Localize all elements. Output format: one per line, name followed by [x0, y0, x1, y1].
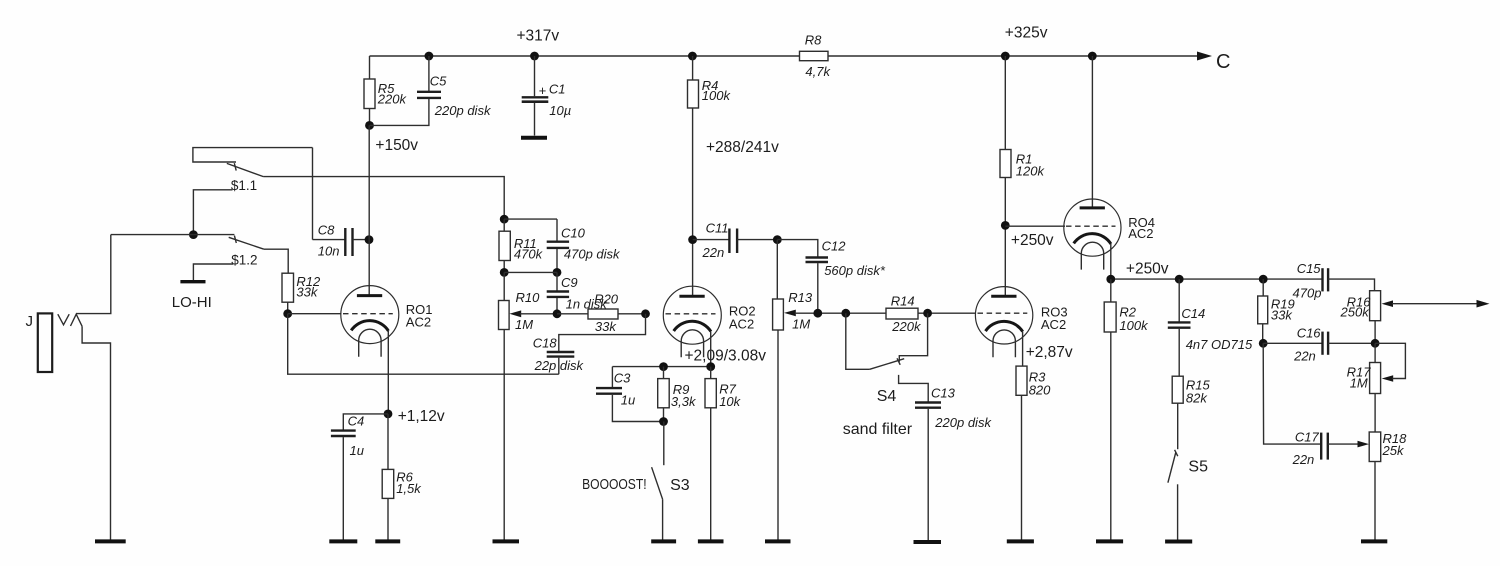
wire: S3 bottom lead	[662, 499, 664, 541]
svg-text:S5: S5	[1188, 458, 1208, 475]
junction R9 top	[659, 362, 668, 371]
wire: C14 to R15	[1178, 329, 1180, 376]
svg-text:220k: 220k	[377, 91, 408, 106]
svg-text:S4: S4	[877, 388, 897, 405]
ground under S3	[651, 539, 676, 543]
svg-text:470k: 470k	[514, 247, 544, 262]
potentiometer R13	[773, 299, 784, 330]
R18 wiper arrow	[1358, 441, 1370, 448]
svg-text:AC2: AC2	[1128, 226, 1153, 241]
svg-text:1u: 1u	[350, 443, 364, 458]
wire: C10 top lead	[556, 219, 558, 241]
RO3 cathode arc	[986, 321, 1023, 331]
wire: RO4 cathode lead	[1110, 244, 1112, 279]
R13 wiper arrow	[784, 310, 796, 317]
svg-text:33k: 33k	[296, 284, 318, 299]
svg-text:+2,09/3.08v: +2,09/3.08v	[685, 347, 767, 364]
svg-text:C: C	[1216, 51, 1230, 73]
arrow to node C	[1197, 52, 1212, 61]
svg-text:R10: R10	[516, 290, 541, 305]
resistor R2	[1104, 302, 1116, 332]
wire: C3 bottom to R9 bottom	[612, 395, 663, 422]
wire: R7 leads to ground	[710, 367, 712, 379]
resistor R12	[282, 273, 294, 302]
switch S5 blade	[1168, 452, 1176, 483]
capacitor C12	[806, 256, 829, 258]
resistor R7	[705, 379, 716, 408]
wire: cathode row C3/R9/R7	[612, 366, 710, 368]
svg-text:82k: 82k	[1186, 391, 1208, 406]
RO4 cathode arc	[1074, 234, 1111, 244]
svg-text:1M: 1M	[792, 317, 810, 332]
wire: pole node to jack	[111, 234, 194, 236]
ground under jack	[95, 539, 126, 543]
wire: C12 bottom lead	[817, 263, 819, 313]
svg-text:+317v: +317v	[517, 28, 560, 45]
ground under R3	[1007, 539, 1034, 543]
wire: rail to C1	[534, 56, 536, 96]
svg-text:100k: 100k	[702, 88, 732, 103]
wire: jack tip up to switch pole	[76, 235, 111, 314]
wire: node to R11	[503, 219, 505, 231]
RO1 cathode arc	[351, 321, 388, 331]
svg-text:1M: 1M	[1350, 376, 1368, 391]
svg-text:1M: 1M	[515, 317, 533, 332]
svg-text:C3: C3	[614, 370, 631, 385]
svg-text:AC2: AC2	[406, 314, 431, 329]
svg-text:R20: R20	[594, 292, 619, 307]
RO4 grid (dashed)	[1066, 225, 1116, 227]
wire: S4 upper contact to R14 right	[899, 313, 927, 362]
ground under C1	[521, 136, 547, 140]
svg-text:1u: 1u	[621, 393, 635, 408]
ground under R7	[698, 539, 724, 543]
wire: C14 top lead	[1178, 279, 1180, 322]
junction C11/anode	[688, 235, 697, 244]
capacitor C10	[547, 240, 569, 242]
junction on rail at R4	[688, 52, 697, 61]
wire: R11 bottom to C9 top	[504, 271, 557, 273]
wire: rail to C5	[428, 56, 430, 91]
tube RO1 envelope	[341, 286, 399, 344]
wire: grid node down to C18	[559, 314, 646, 352]
svg-text:C11: C11	[706, 221, 729, 236]
potentiometer R17	[1370, 363, 1381, 394]
svg-text:220p disk: 220p disk	[934, 415, 992, 430]
wire: rail to R1	[1004, 56, 1006, 150]
wire: R12 to grid node	[287, 302, 289, 314]
svg-text:LO-HI: LO-HI	[172, 294, 212, 311]
wire: RO1 cathode lead	[387, 331, 389, 414]
capacitor C15	[1321, 268, 1323, 291]
wire: R14 to RO3 grid	[918, 312, 976, 314]
junction S4 left	[841, 309, 850, 318]
wire: output line	[1392, 303, 1484, 305]
capacitor C16	[1321, 332, 1323, 355]
capacitor C3	[596, 387, 622, 389]
junction on rail at C1	[530, 52, 539, 61]
svg-text:250k: 250k	[1340, 305, 1371, 320]
junction C12/wiper	[813, 309, 822, 318]
resistor R19	[1258, 296, 1268, 324]
wire: R2 to ground	[1110, 332, 1112, 541]
wire: R3 to ground	[1021, 395, 1023, 541]
wire: C9 bottom lead	[556, 298, 558, 314]
wire: R13 top lead	[776, 240, 778, 299]
svg-text:820: 820	[1029, 383, 1051, 398]
svg-text:C1: C1	[549, 81, 566, 96]
wire: C16 left lead	[1263, 342, 1322, 344]
RO4 heater	[1081, 242, 1103, 269]
resistor R4	[688, 80, 699, 108]
svg-text:C17: C17	[1295, 430, 1320, 445]
capacitor C13	[915, 401, 941, 403]
S1.2 contact tick	[234, 236, 236, 243]
ground under R2	[1096, 539, 1123, 543]
svg-text:R8: R8	[805, 33, 822, 48]
ground under C4	[329, 539, 357, 543]
wire: C18 bottom to feedback run	[558, 358, 560, 375]
wire: R19 top lead	[1262, 279, 1264, 296]
svg-text:C12: C12	[822, 239, 847, 254]
svg-text:+2,87v: +2,87v	[1026, 344, 1073, 361]
wire: C10 bottom lead	[556, 249, 558, 272]
resistor R8	[800, 51, 829, 60]
junction C8/anode	[365, 235, 374, 244]
resistor R9	[658, 379, 670, 408]
junction R7 top	[706, 362, 715, 371]
svg-text:33k: 33k	[1271, 308, 1293, 323]
junction R11 top node	[500, 215, 509, 224]
wire: R10 top lead	[503, 272, 505, 300]
wire: rail to R5	[369, 56, 371, 79]
ground under R10	[493, 539, 520, 543]
wire: C8 to RO1 anode line	[353, 239, 370, 241]
wire: S1.2 blade to R12	[264, 249, 288, 273]
svg-text:22n: 22n	[702, 245, 725, 260]
junction on rail at R1	[1001, 52, 1010, 61]
svg-text:4,7k: 4,7k	[805, 64, 831, 79]
junction R9 bottom / S3	[659, 417, 668, 426]
svg-text:470p: 470p	[1293, 286, 1322, 301]
svg-text:R14: R14	[891, 294, 915, 309]
wire: R11 top node to C10	[504, 218, 557, 220]
wire: +317v top rail left of R8	[370, 55, 800, 57]
potentiometer R16	[1370, 291, 1381, 321]
svg-text:C4: C4	[348, 413, 365, 428]
S1.2 contact stub	[193, 234, 234, 236]
svg-text:C16: C16	[1297, 326, 1322, 341]
RO1 heater	[359, 329, 381, 357]
output arrow head	[1477, 300, 1490, 308]
wire: C13 to ground	[927, 409, 929, 541]
wire: S1.1 top line down to C8	[312, 148, 314, 240]
svg-text:+: +	[539, 83, 547, 98]
svg-text:220p disk: 220p disk	[434, 103, 492, 118]
svg-text:33k: 33k	[595, 319, 617, 334]
RO3 grid (dashed)	[978, 312, 1028, 314]
wire: C11 to R13 node	[737, 239, 777, 241]
R16 wiper arrow	[1382, 300, 1394, 307]
junction R1/RO3 anode/RO4 grid	[1001, 221, 1010, 230]
R17 wiper arrow	[1382, 375, 1394, 382]
resistor R20	[588, 309, 618, 319]
svg-text:3,3k: 3,3k	[671, 394, 697, 409]
ground under C13	[914, 540, 942, 544]
junction C9/R20	[553, 309, 562, 318]
wire: R10 wiper to C9 node	[520, 313, 557, 315]
svg-text:10µ: 10µ	[549, 103, 571, 118]
wire: C1 to ground	[534, 103, 536, 136]
wire: R20 to RO2 grid node	[618, 313, 646, 315]
svg-text:+250v: +250v	[1011, 232, 1054, 249]
S1.1 contact tick	[234, 163, 236, 170]
wire: S1.1 blade to R11/R10 node	[263, 177, 504, 220]
RO2 cathode arc	[674, 321, 711, 331]
wire: C4 to ground	[342, 437, 344, 540]
capacitor C18	[547, 351, 575, 353]
resistor R1	[1000, 150, 1011, 178]
R10 wiper arrow	[509, 310, 521, 317]
wire: C9 top lead	[556, 272, 558, 291]
svg-text:100k: 100k	[1119, 318, 1149, 333]
resistor R11	[499, 231, 510, 260]
resistor R14	[886, 308, 918, 319]
wire: R16 bottom	[1374, 321, 1376, 344]
junction RO4 cathode / R2	[1106, 275, 1115, 284]
svg-text:BOOOOST!: BOOOOST!	[582, 476, 647, 493]
RO1 anode bar	[357, 294, 382, 297]
wire: C3 top lead	[611, 367, 613, 388]
svg-text:4n7 OD715: 4n7 OD715	[1186, 337, 1253, 352]
potentiometer R18	[1369, 432, 1381, 462]
S4 contact tick	[897, 358, 900, 365]
S1.1 second throw stub	[193, 190, 232, 235]
capacitor C17	[1320, 433, 1322, 460]
wire: RO2 cathode lead	[710, 332, 712, 367]
svg-text:+325v: +325v	[1005, 25, 1048, 42]
svg-text:25k: 25k	[1382, 443, 1405, 458]
wire: S1.1 feed line from C8	[193, 148, 313, 162]
wire: R2 top lead	[1110, 279, 1112, 302]
junction cathode node	[384, 410, 393, 419]
wire: grid node to RO1	[288, 313, 342, 315]
switch S1.2 blade	[229, 237, 264, 249]
svg-text:1,5k: 1,5k	[396, 481, 422, 496]
svg-text:AC2: AC2	[729, 317, 754, 332]
tube RO3 envelope	[975, 287, 1032, 344]
ground under R6	[375, 539, 400, 543]
svg-text:560p disk*: 560p disk*	[824, 263, 886, 278]
junction switch pole node	[189, 230, 198, 239]
junction R19/C16	[1259, 339, 1268, 348]
wire: C16 right lead	[1328, 342, 1375, 344]
junction on rail at RO4 anode	[1088, 52, 1097, 61]
svg-text:J: J	[26, 313, 34, 330]
wire: R9 leads	[663, 367, 665, 379]
svg-text:120k: 120k	[1016, 164, 1046, 179]
wire: R4 down to RO2 anode	[692, 108, 694, 296]
ground under R18	[1361, 539, 1387, 543]
wire: R17 wiper loop to top node	[1375, 343, 1405, 378]
wire: +325v rail right of R8	[828, 55, 1205, 57]
svg-text:10n: 10n	[318, 244, 340, 259]
resistor R15	[1172, 376, 1183, 403]
switch S1.1 blade	[227, 163, 264, 176]
wire: to R20	[557, 313, 588, 315]
RO3 anode bar	[991, 295, 1016, 298]
svg-text:22n: 22n	[1292, 452, 1315, 467]
svg-text:22n: 22n	[1293, 349, 1316, 364]
capacitor C1 (electrolytic)	[522, 96, 549, 98]
junction RO1 grid node	[283, 309, 292, 318]
wire: +150v node down to RO1 anode	[368, 125, 370, 295]
junction on rail at C5	[425, 52, 434, 61]
svg-text:$1.1: $1.1	[231, 178, 257, 193]
junction C10/C9	[553, 268, 562, 277]
junction R14 right / S4	[923, 309, 932, 318]
resistor R5	[364, 79, 375, 109]
wire: R6 to ground	[387, 498, 389, 540]
wire: R17 bottom to R18	[1374, 394, 1376, 433]
RO2 grid (dashed)	[666, 313, 716, 315]
junction R19 top	[1259, 275, 1268, 284]
wire: anode node to C11	[693, 239, 730, 241]
svg-text:C9: C9	[561, 275, 578, 290]
wire: R1 down to RO3 anode	[1004, 178, 1006, 297]
jack tip contact	[71, 314, 83, 326]
svg-text:C18: C18	[533, 336, 558, 351]
svg-text:220k: 220k	[891, 319, 922, 334]
ground bar LO-HI	[180, 280, 205, 283]
jack plug V mark	[58, 314, 69, 325]
svg-text:+288/241v: +288/241v	[706, 139, 779, 156]
wire: node to R17 top	[1374, 343, 1376, 362]
svg-text:S3: S3	[670, 477, 690, 494]
switch S3 blade	[652, 467, 663, 499]
capacitor C11	[728, 229, 730, 254]
ground under S5	[1165, 540, 1192, 544]
svg-text:C5: C5	[430, 74, 447, 89]
svg-text:10k: 10k	[719, 394, 741, 409]
svg-text:C10: C10	[561, 226, 586, 241]
wire: rail to RO4 anode	[1091, 56, 1093, 208]
wire: C17 to R18 wiper	[1328, 443, 1363, 445]
RO3 heater	[993, 330, 1015, 357]
ground under R13	[765, 539, 791, 543]
resistor R6	[382, 469, 394, 498]
svg-text:C13: C13	[931, 385, 956, 400]
wire: R11 bottom	[503, 261, 505, 273]
svg-text:$1.2: $1.2	[231, 252, 257, 267]
wire: R10 bottom to ground	[503, 330, 505, 541]
wire: to C8 left plate	[313, 239, 346, 241]
wire: R19 bottom lead	[1262, 324, 1264, 344]
potentiometer R10	[499, 301, 510, 330]
junction +150v node	[365, 121, 374, 130]
svg-text:C15: C15	[1297, 261, 1322, 276]
wire: RO3 cathode lead	[1022, 332, 1024, 367]
svg-text:+250v: +250v	[1126, 261, 1169, 278]
svg-text:+150v: +150v	[375, 137, 418, 154]
wire: feedback run to C18	[288, 314, 559, 375]
wire: cathode node to R6	[387, 414, 389, 470]
svg-text:+1,12v: +1,12v	[398, 408, 445, 425]
S1.2 second throw stub to ground	[193, 264, 233, 280]
capacitor C4	[331, 429, 356, 431]
wire: cathode node to C4	[343, 414, 388, 430]
wire: R15 to S5	[1177, 403, 1179, 449]
junction R11 bottom	[500, 268, 509, 277]
capacitor C14	[1168, 321, 1191, 323]
junction R16/R17 node	[1371, 339, 1380, 348]
junction RO2 grid node	[641, 309, 650, 318]
wire: rail to R4	[692, 56, 694, 80]
wire: R5 to +150v node	[369, 109, 371, 126]
capacitor C8	[344, 228, 346, 256]
wire: S4 lower contact to C13	[899, 375, 929, 402]
wire: S3 top lead	[663, 422, 665, 466]
RO4 anode bar	[1080, 206, 1105, 209]
wire: R13 bottom to ground	[777, 330, 779, 541]
svg-text:470p disk: 470p disk	[564, 247, 621, 262]
input jack body	[38, 313, 52, 372]
capacitor C9	[547, 290, 569, 292]
svg-text:AC2: AC2	[1041, 317, 1066, 332]
RO1 grid (dashed)	[343, 313, 393, 315]
S5 contact tick	[1175, 450, 1178, 456]
resistor R3	[1016, 366, 1027, 395]
RO2 heater	[681, 330, 703, 357]
svg-text:R13: R13	[788, 290, 813, 305]
svg-text:C8: C8	[318, 223, 335, 238]
svg-text:C14: C14	[1181, 306, 1205, 321]
svg-text:sand filter: sand filter	[843, 421, 913, 438]
wire: C17 branch from C16 node	[1263, 343, 1321, 444]
wire: C15 to R16 top	[1328, 279, 1374, 291]
junction C14	[1175, 275, 1184, 284]
tube RO2 envelope	[663, 286, 721, 344]
tube RO4 envelope	[1064, 199, 1121, 256]
wire: R13 wiper row	[795, 312, 886, 314]
switch S4 blade	[870, 359, 905, 370]
wire: jack sleeve to ground	[82, 326, 110, 540]
junction C11/R13/C12	[773, 235, 782, 244]
wire: S4 left drop	[846, 313, 870, 369]
wire: RO4 grid feed	[1005, 225, 1065, 227]
wire: +250v output rail	[1111, 278, 1323, 280]
wire: R18 bottom to ground	[1374, 462, 1376, 541]
RO2 anode bar	[679, 295, 704, 298]
wire: C5 bottom to +150v node	[370, 99, 429, 125]
wire: S5 bottom lead	[1177, 484, 1179, 541]
capacitor C5	[417, 91, 441, 93]
wire: C12 top lead	[777, 240, 818, 257]
